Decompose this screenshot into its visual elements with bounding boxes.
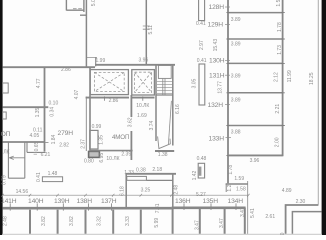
elevator shaft 1 inner dashed X <box>94 72 124 91</box>
svg-text:2.82: 2.82 <box>59 143 69 149</box>
svg-text:2.39: 2.39 <box>121 152 131 158</box>
leader 132 <box>225 104 230 106</box>
lobby west wall stub <box>95 57 97 66</box>
divider end ticks <box>226 13 284 156</box>
right column bottom wall <box>228 154 282 156</box>
svg-text:0.41: 0.41 <box>197 58 207 64</box>
svg-text:1.42: 1.42 <box>192 170 198 180</box>
svg-text:1.99: 1.99 <box>96 58 106 64</box>
elevator shaft 2 inner dashed X <box>135 72 152 92</box>
svg-text:3.47: 3.47 <box>240 207 246 217</box>
bottom right outer wall <box>286 205 319 234</box>
main bottom wall mid block <box>172 207 246 210</box>
svg-text:3.32: 3.32 <box>97 216 103 226</box>
svg-text:1.35: 1.35 <box>35 107 41 117</box>
svg-text:2.12: 2.12 <box>274 72 280 82</box>
svg-text:136Н: 136Н <box>175 198 191 205</box>
border bottom faint line <box>2 234 322 235</box>
svg-text:1.48: 1.48 <box>48 171 58 177</box>
ramp slant line <box>168 101 171 144</box>
west wall of lift hall <box>89 67 91 152</box>
svg-text:1.78: 1.78 <box>277 22 283 32</box>
column rect <box>90 130 98 149</box>
svg-text:3.25: 3.25 <box>141 188 151 194</box>
mid block west wall <box>172 208 174 234</box>
wall over OP room <box>3 106 49 108</box>
wall under door <box>155 150 174 152</box>
svg-text:0.41: 0.41 <box>196 21 206 27</box>
svg-text:2.48: 2.48 <box>174 185 180 195</box>
svg-text:3.82: 3.82 <box>41 216 47 226</box>
svg-text:3.96: 3.96 <box>139 58 149 64</box>
right column west wall <box>227 0 229 183</box>
staircase upper box <box>158 65 171 78</box>
left room divider wall <box>44 67 46 151</box>
svg-text:5.41: 5.41 <box>250 208 256 218</box>
svg-text:6.95: 6.95 <box>99 153 105 163</box>
shaft rect 3 <box>198 163 204 178</box>
svg-text:3.74: 3.74 <box>149 120 155 130</box>
svg-text:0.10: 0.10 <box>49 101 59 107</box>
leader 129 <box>225 23 230 25</box>
border left bar <box>0 0 3 235</box>
svg-text:0.65: 0.65 <box>34 141 40 151</box>
wall B continuation <box>146 179 173 181</box>
thin wall 86 <box>85 97 87 152</box>
svg-text:4.05: 4.05 <box>30 133 40 139</box>
svg-text:6.16: 6.16 <box>175 104 181 114</box>
svg-text:0.34: 0.34 <box>49 107 55 117</box>
svg-text:3.47: 3.47 <box>219 218 225 228</box>
label stubs mid block <box>184 203 236 210</box>
wall 180.5 <box>226 183 248 185</box>
svg-text:129Н: 129Н <box>208 22 224 29</box>
svg-text:5.0: 5.0 <box>91 0 97 6</box>
border right bar <box>322 0 326 235</box>
svg-text:4.77: 4.77 <box>36 78 42 88</box>
vestibule door dashes <box>73 8 82 10</box>
right column east wall <box>282 0 284 156</box>
svg-text:1.5: 1.5 <box>276 0 282 7</box>
dim line above lobby <box>86 56 97 58</box>
door rect hall <box>127 176 147 180</box>
svg-text:2.86: 2.86 <box>109 98 119 104</box>
svg-text:3.89: 3.89 <box>231 98 241 104</box>
wall down east <box>172 174 174 208</box>
svg-text:11.99: 11.99 <box>287 70 293 82</box>
svg-text:3.62: 3.62 <box>127 117 133 127</box>
svg-text:0.80: 0.80 <box>84 159 94 165</box>
wall below 4MOP <box>90 150 133 152</box>
svg-text:128Н: 128Н <box>209 4 225 11</box>
svg-text:0.99: 0.99 <box>92 124 102 130</box>
svg-text:139Н: 139Н <box>54 198 70 205</box>
svg-text:141Н: 141Н <box>1 198 17 205</box>
column base block <box>89 151 100 157</box>
left pilaster box 2 <box>3 112 7 119</box>
label stubs to wall <box>10 203 111 210</box>
wall 173.5 horizontal <box>125 173 176 175</box>
svg-text:1.78: 1.78 <box>228 165 234 175</box>
svg-text:135Н: 135Н <box>203 198 219 205</box>
svg-text:0.48: 0.48 <box>197 156 207 162</box>
svg-text:3.82: 3.82 <box>69 216 75 226</box>
svg-text:0.38: 0.38 <box>136 167 146 173</box>
bottom dim line <box>3 194 249 196</box>
main upper wall west part <box>3 66 95 68</box>
svg-text:13.77: 13.77 <box>217 81 223 94</box>
bottom dim ticks <box>1 194 249 197</box>
svg-text:1.69: 1.69 <box>137 113 147 119</box>
leader 133 <box>226 137 232 139</box>
svg-text:1.38: 1.38 <box>158 152 168 158</box>
svg-text:3.89: 3.89 <box>231 17 241 23</box>
wall below shaft 1 <box>86 97 155 99</box>
staircase treads <box>157 81 172 93</box>
staircase bottom <box>156 94 173 96</box>
dividers right column <box>228 13 282 126</box>
svg-text:140Н: 140Н <box>28 198 44 205</box>
svg-text:1.73: 1.73 <box>277 45 283 55</box>
svg-text:5.99: 5.99 <box>154 218 160 228</box>
svg-text:6.18: 6.18 <box>119 186 125 196</box>
main upper wall east part <box>95 64 175 66</box>
svg-text:ОП: ОП <box>1 131 11 138</box>
svg-text:1.84: 1.84 <box>51 134 57 144</box>
svg-text:130Н: 130Н <box>209 57 225 64</box>
svg-text:131Н: 131Н <box>209 72 225 79</box>
svg-text:3.89: 3.89 <box>231 74 241 80</box>
left pilaster box <box>3 83 9 93</box>
svg-text:2.0: 2.0 <box>280 232 286 235</box>
leader 131 <box>225 74 230 76</box>
svg-text:4МОП: 4МОП <box>112 134 129 141</box>
mid block east dim line <box>247 181 249 234</box>
corridor east wall <box>145 0 147 65</box>
svg-text:1.58: 1.58 <box>236 186 246 192</box>
leader 128 <box>225 6 230 8</box>
top-left vestibule walls <box>66 0 86 15</box>
svg-text:2.97: 2.97 <box>199 40 205 50</box>
bottom right inner wall <box>292 212 321 234</box>
svg-text:137Н: 137Н <box>101 198 117 205</box>
svg-text:18.25: 18.25 <box>309 72 315 85</box>
elevator shaft 1 outer <box>90 70 128 95</box>
svg-text:2.21: 2.21 <box>275 104 281 114</box>
corridor break marks <box>143 26 150 29</box>
corridor west wall <box>85 0 87 67</box>
east wall of 4MOP <box>130 95 132 160</box>
svg-text:5.11: 5.11 <box>148 25 154 35</box>
wall under OP room <box>3 141 45 143</box>
shaft rect 3 inner <box>199 167 202 176</box>
dim line 18.25 <box>317 0 319 205</box>
wall down from it west <box>125 174 127 208</box>
staircase outer walls <box>156 65 173 146</box>
svg-text:14.56: 14.56 <box>16 189 29 195</box>
svg-text:0.79: 0.79 <box>2 175 8 185</box>
equals mark <box>34 153 37 155</box>
mid block dividers <box>200 209 225 234</box>
svg-text:10.ЛК: 10.ЛК <box>106 156 119 162</box>
svg-text:15.43: 15.43 <box>213 39 219 52</box>
elevator shaft 2 outer <box>132 70 155 95</box>
leader 130 <box>225 59 230 61</box>
svg-text:2.00: 2.00 <box>274 137 280 147</box>
svg-text:138Н: 138Н <box>77 198 93 205</box>
svg-text:2.37: 2.37 <box>81 139 87 149</box>
svg-text:3.33: 3.33 <box>125 216 131 226</box>
svg-text:4.07: 4.07 <box>74 89 80 99</box>
svg-text:4.89: 4.89 <box>282 188 292 194</box>
svg-text:1.59: 1.59 <box>234 176 244 182</box>
shaft rect 2 <box>199 64 205 105</box>
door swing symbol <box>158 136 171 148</box>
small wall tick right of 279N wall <box>45 142 48 144</box>
svg-text:133Н: 133Н <box>209 135 225 142</box>
svg-text:132Н: 132Н <box>208 102 224 109</box>
svg-text:10.ЛК: 10.ЛК <box>136 103 149 109</box>
svg-text:3.05: 3.05 <box>191 78 197 88</box>
LK shaft box <box>8 142 24 178</box>
LK arrow <box>9 156 25 159</box>
svg-text:3.47: 3.47 <box>195 220 201 230</box>
bottom room dividers <box>30 210 141 234</box>
svg-text:3.96: 3.96 <box>250 158 260 164</box>
svg-text:2.18: 2.18 <box>152 167 162 173</box>
1.48 door rect <box>42 177 62 182</box>
svg-text:2.48: 2.48 <box>3 216 9 226</box>
svg-text:6.21: 6.21 <box>41 152 51 158</box>
svg-text:0.41: 0.41 <box>36 172 42 182</box>
mid block east wall <box>244 208 246 234</box>
svg-text:134Н: 134Н <box>228 198 244 205</box>
shaft rect 1 <box>199 0 205 21</box>
wall jog under 279N <box>27 142 45 152</box>
svg-text:1.35: 1.35 <box>99 135 105 145</box>
svg-text:1.2: 1.2 <box>227 184 233 191</box>
svg-text:2.61: 2.61 <box>265 214 275 220</box>
svg-text:3.88: 3.88 <box>231 129 241 135</box>
svg-text:279Н: 279Н <box>58 130 74 137</box>
svg-text:3.89: 3.89 <box>231 41 241 47</box>
svg-text:2.86: 2.86 <box>61 67 71 73</box>
main bottom wall left block <box>3 207 172 210</box>
